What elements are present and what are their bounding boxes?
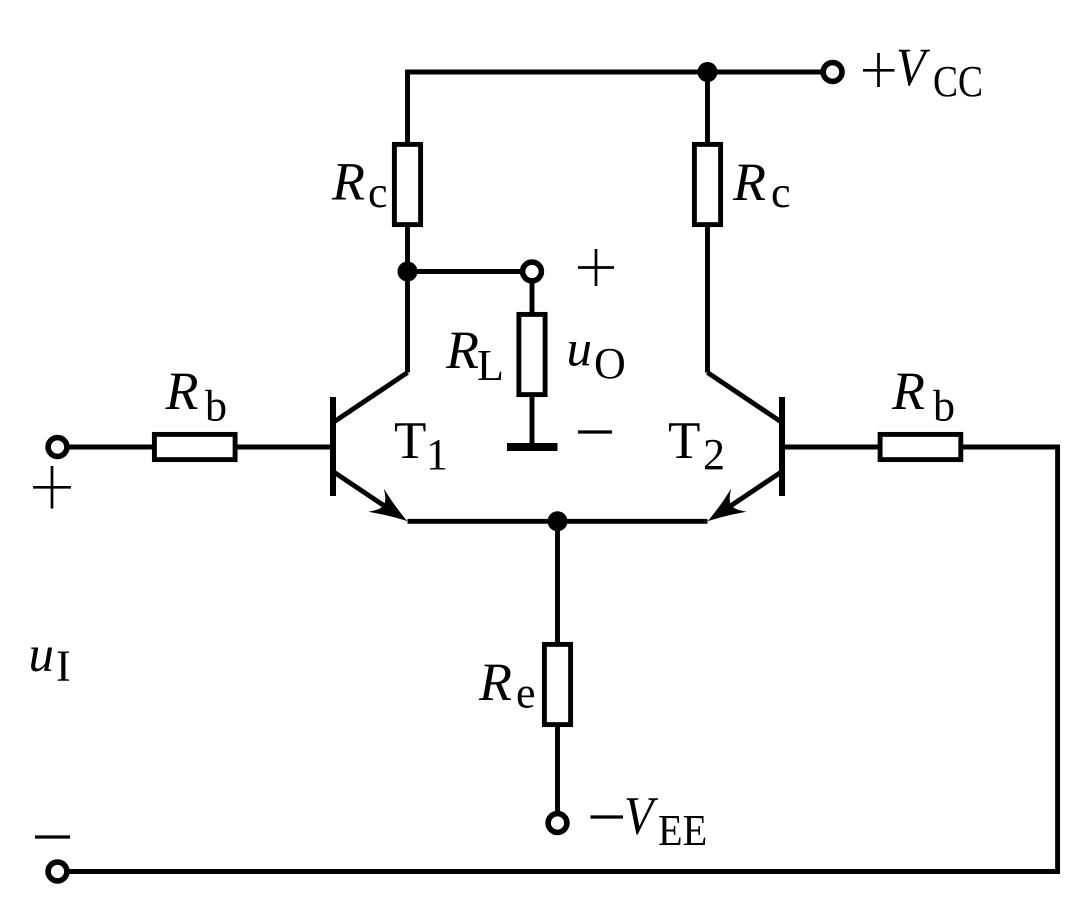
wire Rb1 to T1 base	[237, 445, 330, 450]
label Rb1	[165, 361, 228, 431]
label VEE	[624, 786, 707, 855]
svg-text:CC: CC	[933, 57, 983, 106]
wire Rc1 bottom to node	[405, 225, 410, 272]
svg-text:c: c	[368, 168, 388, 217]
label uO	[567, 322, 626, 389]
label T2	[668, 412, 725, 479]
wire top supply rail	[408, 72, 822, 144]
terminal input -	[48, 862, 67, 881]
wire node to output terminal	[408, 269, 522, 274]
svg-text:I: I	[56, 641, 71, 690]
terminal input +	[48, 438, 67, 457]
label minus output	[578, 430, 612, 433]
label minus VEE	[591, 815, 624, 818]
wire Rc2 top to rail	[705, 72, 710, 144]
svg-text:e: e	[516, 668, 536, 717]
wire RL to ground	[530, 395, 535, 444]
label uI	[29, 627, 71, 690]
label Rb2	[891, 361, 955, 431]
svg-text:V: V	[624, 786, 659, 846]
svg-text:O: O	[594, 339, 626, 388]
label minus input	[35, 835, 70, 838]
svg-text:T: T	[394, 412, 426, 470]
wire emitter rail	[408, 519, 708, 524]
resistor Rc1	[394, 144, 420, 224]
label RL	[445, 320, 504, 390]
label Rc1	[331, 152, 388, 218]
node output junction dot	[398, 262, 418, 282]
label plus input	[33, 466, 71, 509]
label plus VCC	[863, 53, 895, 87]
wire Re to VEE terminal	[555, 725, 560, 812]
svg-text:L: L	[477, 341, 504, 390]
svg-text:EE: EE	[658, 806, 707, 855]
resistor Rb2	[880, 434, 961, 459]
svg-text:R: R	[445, 320, 479, 380]
svg-text:2: 2	[703, 430, 725, 479]
ground	[507, 443, 558, 451]
svg-text:b: b	[933, 382, 955, 431]
wire tail node to Re	[555, 521, 560, 646]
transistor T2	[700, 373, 782, 533]
svg-text:u: u	[567, 322, 593, 378]
junction node at VCC rail	[698, 62, 718, 82]
terminal +VCC	[823, 63, 842, 82]
svg-text:R: R	[732, 152, 766, 212]
svg-text:V: V	[896, 37, 931, 97]
terminal output +	[523, 262, 542, 281]
wire Rb2 to right corner down	[963, 447, 1058, 872]
terminal -VEE	[548, 814, 567, 833]
resistor RL	[519, 314, 545, 394]
resistor Re	[544, 644, 570, 724]
svg-text:c: c	[771, 168, 791, 217]
label Rc2	[732, 152, 791, 217]
svg-text:u: u	[29, 627, 55, 683]
svg-text:R: R	[478, 652, 512, 712]
svg-text:b: b	[205, 382, 227, 431]
wire T2 base to Rb2	[785, 445, 881, 450]
wire bottom rail	[69, 869, 1060, 874]
label plus output	[578, 249, 614, 286]
label Re	[478, 652, 536, 717]
junction dot tail node	[548, 511, 568, 531]
wire T1 collector to node	[405, 272, 410, 373]
wire input terminal to Rb1	[69, 445, 152, 450]
transistor T1	[333, 373, 415, 533]
svg-text:R: R	[891, 361, 925, 421]
svg-text:R: R	[331, 152, 365, 212]
svg-text:1: 1	[426, 430, 448, 479]
wire T2 collector to Rc2	[705, 225, 710, 373]
resistor Rc2	[694, 144, 720, 224]
resistor Rb1	[154, 434, 235, 459]
label T1	[394, 412, 448, 479]
svg-text:T: T	[668, 412, 700, 470]
wire output terminal to RL	[530, 283, 535, 316]
svg-text:R: R	[165, 361, 199, 421]
label VCC	[896, 37, 983, 106]
